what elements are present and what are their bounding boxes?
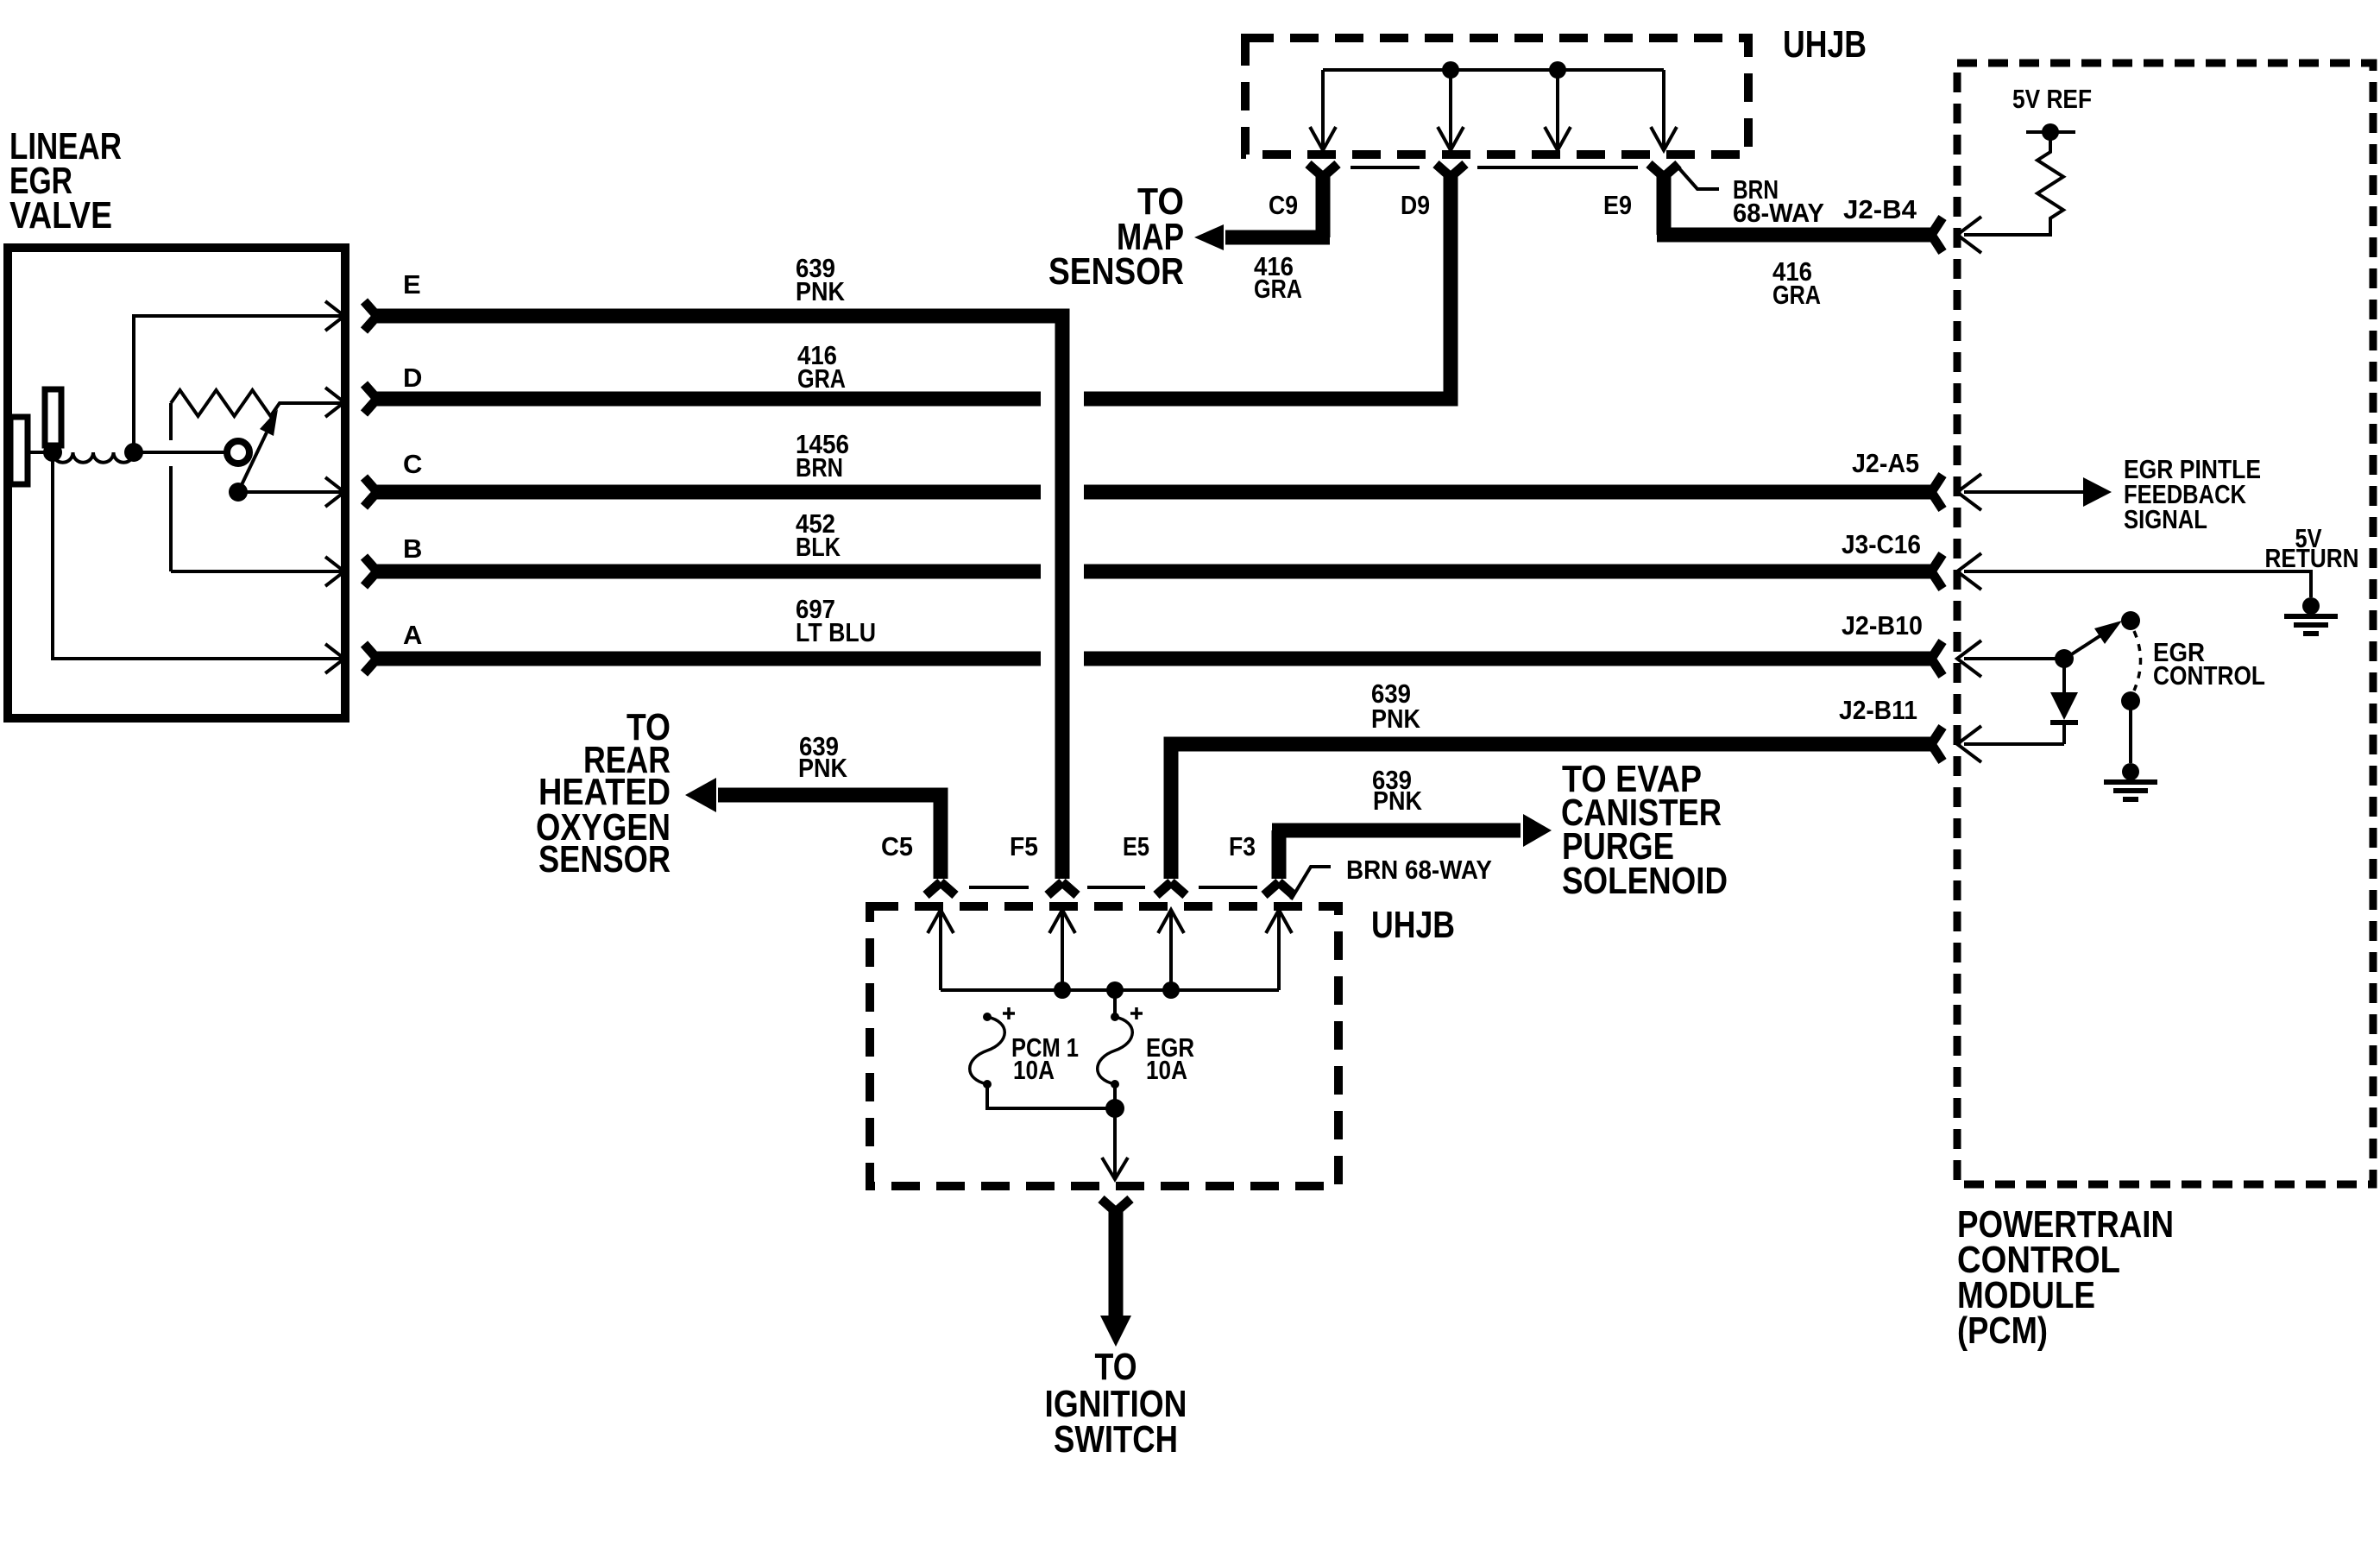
PCM pin arrow J3-C16 [1957,553,1981,590]
svg-text:SENSOR: SENSOR [538,838,671,880]
diode D1 [2062,659,2066,692]
fuse PCM 1 10A [983,1013,992,1021]
wire C 1456 BRN (valve to PCM J2-A5) [377,485,1931,500]
svg-text:GRA: GRA [1254,274,1302,304]
svg-text:LT BLU: LT BLU [796,617,876,647]
arrow to EVAP canister purge solenoid [1523,814,1552,847]
BRN 68-WAY pointer bottom [1291,867,1331,899]
svg-text:SWITCH: SWITCH [1054,1418,1178,1461]
PCM pin arrow J2-A5 [1957,474,1981,510]
connector E9 fork [1649,164,1678,177]
connector E5 fork [1156,882,1186,895]
svg-text:VALVE: VALVE [9,194,112,237]
svg-text:B: B [403,533,422,564]
svg-text:E: E [403,269,421,300]
svg-text:RETURN: RETURN [2265,543,2359,573]
wiper arrow into resistor [238,432,267,492]
wire C connector at valve [364,477,377,507]
wire 639 PNK UHJB F3 to EVAP purge solenoid [1272,830,1521,879]
arrow to MAP sensor [1194,224,1224,250]
svg-text:PNK: PNK [796,276,846,306]
wiper contact circle [227,441,249,464]
connector F5 fork [1048,882,1077,895]
svg-text:J3-C16: J3-C16 [1842,529,1921,559]
wire 5V return [1964,571,2311,597]
arrow to rear heated oxygen sensor [685,778,716,812]
wire resistor to pin B (break at coil wire crossing) [171,403,343,571]
svg-text:J2-A5: J2-A5 [1852,448,1919,478]
junction top bus spare [1549,61,1566,79]
wire to EGR pintle label [1964,490,2083,494]
PCM pin arrow J2-B10 [1957,641,1981,677]
connector J2-B11 fork [1931,727,1942,761]
connector J2-B4 fork [1931,218,1942,252]
top UHJB arrow to C9 [1321,70,1325,147]
svg-text:A: A [403,620,422,650]
junction bus F5 [1054,981,1071,999]
plus mark PCM 1 fuse [1003,1007,1015,1019]
potentiometer resistor R1 [171,390,343,416]
connector face line C9-D9 [1351,166,1420,169]
svg-text:SOLENOID: SOLENOID [1562,860,1728,902]
arrow up to E5 [1169,913,1173,990]
node 5V REF [2042,123,2059,141]
svg-text:UHJB: UHJB [1371,904,1455,946]
arrow down to ignition [1113,1108,1117,1176]
pin A arrow [325,644,344,673]
svg-text:BRN: BRN [796,452,843,483]
svg-text:J2-B4: J2-B4 [1843,194,1917,224]
wire coil left to pin A [53,452,343,659]
svg-text:E9: E9 [1603,190,1632,220]
linear EGR valve box [8,248,345,718]
switch contact lower [2121,691,2140,710]
svg-text:C: C [403,449,422,479]
wire D connector at valve [364,384,377,413]
connector J2-A5 fork [1931,475,1942,509]
fuse EGR 10A [1113,990,1117,1017]
junction ignition feed [1105,1099,1124,1118]
arrow to ignition switch [1100,1316,1131,1347]
svg-text:BRN 68-WAY: BRN 68-WAY [1346,855,1492,885]
node EGR control [2055,649,2074,668]
wire B 452 BLK (valve to PCM J3-C16) [377,565,1931,579]
arrow up to C5 [939,913,942,990]
svg-text:TO: TO [1095,1346,1137,1388]
wire 639 PNK UHJB C5 to rear HO2S [718,795,941,879]
svg-text:J2-B11: J2-B11 [1839,695,1917,725]
connector face line E5-F3 [1199,886,1257,889]
arrow up to F5 [1061,913,1064,990]
svg-text:J2-B10: J2-B10 [1842,610,1923,641]
resistor R2 5V pull-up [1964,132,2063,235]
pin B arrow [325,557,344,586]
svg-text:PNK: PNK [1371,704,1421,734]
connector C5 fork [926,882,955,895]
arrow up to F3 [1277,913,1281,990]
svg-text:GRA: GRA [1772,280,1821,310]
wire fuses to ignition feed [987,1084,1115,1108]
wire node C to pin C [238,490,343,494]
ground EGR control [2122,763,2139,780]
svg-text:(PCM): (PCM) [1957,1309,2048,1352]
wire to ignition switch [1109,1212,1124,1316]
svg-text:5V REF: 5V REF [2012,84,2092,114]
svg-text:UHJB: UHJB [1783,23,1867,66]
wire to ground [2129,701,2132,763]
valve armature rect [45,389,61,445]
PCM pin arrow J2-B11 [1957,726,1981,762]
connector face line D9-E9 [1477,166,1638,169]
wire A 697 LT BLU (valve to PCM J2-B10) [377,652,1931,666]
svg-text:D9: D9 [1401,190,1430,220]
switch contact upper [2121,611,2140,630]
svg-text:D: D [403,363,422,393]
svg-text:F3: F3 [1229,831,1256,861]
wire B connector at valve [364,557,377,586]
ground 5V return [2302,597,2320,615]
svg-text:PNK: PNK [1373,786,1423,816]
junction top bus D9 [1442,61,1459,79]
connector J2-B10 fork [1931,641,1942,676]
wire 5V REF stub [2026,130,2075,134]
bottom UHJB bus [941,988,1279,992]
wire D 416 GRA (valve to UHJB D9) [377,177,1451,399]
connector ignition fork [1101,1199,1130,1212]
connector D9 fork [1436,164,1465,177]
pin E arrow [325,301,344,331]
svg-text:SENSOR: SENSOR [1048,250,1184,293]
junction coil left [43,443,62,462]
svg-text:CONTROL: CONTROL [2153,660,2265,691]
connector J3-C16 fork [1931,554,1942,589]
svg-text:PNK: PNK [798,753,848,783]
UHJB bottom junction block box [870,906,1338,1186]
top UHJB arrow to E9 [1662,70,1665,147]
dashed actuation arc [2134,631,2141,691]
wire diode to J2-B11 [1964,742,2064,746]
wire E 639 PNK (valve to UHJB F5) [377,316,1062,879]
top UHJB internal bus [1323,68,1664,72]
svg-text:10A: 10A [1146,1055,1187,1085]
svg-text:SIGNAL: SIGNAL [2124,504,2207,534]
svg-text:C9: C9 [1269,190,1298,220]
junction coil right [124,443,143,462]
wire coil right to pin E [134,316,343,452]
powertrain control module (PCM) box [1957,63,2373,1184]
BRN 68-WAY pointer top [1678,167,1719,189]
wire to EGR control driver [1964,657,2064,660]
svg-text:10A: 10A [1013,1055,1055,1085]
svg-text:GRA: GRA [797,363,846,394]
connector F3 fork [1264,882,1294,895]
wire rect to coil [28,451,53,454]
valve pintle rect left [10,417,28,484]
connector face line F5-E5 [1087,886,1145,889]
wire 639 PNK UHJB E5 to PCM J2-B11 [1171,744,1931,879]
top UHJB arrow (spare) [1556,70,1559,147]
svg-text:68-WAY: 68-WAY [1733,198,1824,228]
arrow EGR pintle feedback [2083,477,2112,507]
PCM pin arrow J2-B4 [1957,217,1981,253]
wiper node C [229,483,248,502]
connector face line C5-F5 [969,886,1029,889]
connector C9 fork [1308,164,1338,177]
svg-text:E5: E5 [1123,831,1149,861]
pin C arrow [325,477,344,507]
wire C9 to MAP sensor 416 GRA [1225,177,1330,237]
wire A connector at valve [364,644,377,673]
wire E connector at valve [364,301,377,331]
UHJB top junction block box [1245,38,1748,155]
pin D arrow [325,388,344,417]
wire E9 to PCM J2-B4 416 GRA [1657,177,1931,235]
svg-text:BLK: BLK [796,532,841,562]
junction bus EGR fuse [1106,981,1124,999]
svg-text:F5: F5 [1010,831,1038,861]
svg-text:C5: C5 [881,831,913,861]
switch arm arrow (driver) [2068,634,2102,657]
solenoid coil L1 [53,452,134,463]
junction bus E5 [1162,981,1180,999]
plus mark EGR fuse [1130,1007,1143,1019]
top UHJB arrow to D9 [1449,70,1452,147]
wire coil to wiper contact [134,451,226,454]
